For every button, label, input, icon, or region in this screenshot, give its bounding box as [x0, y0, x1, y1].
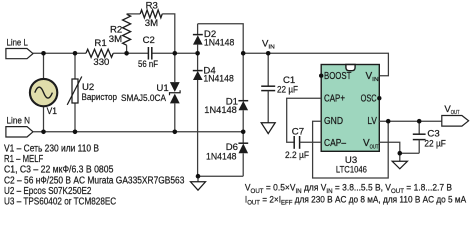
svg-text:Line L: Line L [7, 38, 29, 49]
wire D2 top loop to VIN node [198, 24, 244, 54]
wire C2 to node B end [152, 52, 197, 54]
svg-text:OSC: OSC [361, 93, 377, 104]
VOUT tag [442, 104, 469, 126]
diode D4 [193, 65, 234, 176]
wire main top rail [33, 52, 86, 54]
wire VOUT pin to ground node [379, 142, 419, 153]
wire GND loop [313, 121, 389, 178]
Line L connector [6, 38, 33, 59]
resistor R2 [109, 14, 131, 53]
svg-text:C2: C2 [143, 35, 155, 46]
junction node B R3/U1 [173, 51, 178, 56]
svg-text:BOOST: BOOST [324, 71, 351, 82]
junction U1 bottom [173, 130, 178, 135]
wire VIN rail to IC [243, 53, 388, 75]
junction D2/D4 [195, 51, 200, 56]
TVS diode U1 [121, 53, 180, 132]
op IC U3 LTC1046 [319, 65, 381, 176]
V1 AC source [30, 53, 57, 132]
wire LV to VOUT tag [379, 120, 442, 122]
svg-text:R1: R1 [94, 38, 106, 49]
diode D2 [193, 24, 234, 71]
svg-text:U2: U2 [82, 82, 94, 93]
junction V1 bottom [41, 130, 46, 135]
svg-text:LTC1046: LTC1046 [336, 164, 367, 175]
svg-text:C7: C7 [292, 126, 304, 137]
ground (C3) [392, 153, 407, 169]
svg-text:1N4148: 1N4148 [204, 105, 237, 116]
svg-text:GND: GND [324, 116, 343, 127]
junction V1 top [41, 51, 46, 56]
resistor R3 [127, 0, 175, 53]
capacitor C7 [285, 98, 321, 161]
svg-text:2.2 µF: 2.2 µF [285, 150, 309, 161]
junction C1 tap [266, 51, 271, 56]
resistor R1 [86, 38, 113, 68]
ground (C1) [261, 123, 275, 134]
svg-text:V1: V1 [47, 106, 57, 117]
wire D6 bottom to ground node [198, 175, 243, 177]
svg-text:U3 – TPS60402 or TCM828EC: U3 – TPS60402 or TCM828EC [4, 197, 116, 208]
svg-text:C1, C3 – 22 мкФ/6.3 В 0805: C1, C3 – 22 мкФ/6.3 В 0805 [4, 165, 113, 176]
svg-text:U2 – Epcos S07K250E2: U2 – Epcos S07K250E2 [4, 186, 91, 197]
junction VIN node [241, 51, 246, 56]
svg-text:IOUT = 2×IEFF для 230 В AC до: IOUT = 2×IEFF для 230 В AC до 8 мА, для … [245, 194, 466, 207]
svg-text:LV: LV [367, 116, 377, 127]
junction U2 top [73, 51, 78, 56]
svg-text:56 nF: 56 nF [138, 59, 158, 70]
svg-text:330: 330 [93, 57, 109, 68]
svg-text:VIN: VIN [262, 38, 275, 50]
notes text block [4, 144, 184, 208]
svg-text:3M: 3M [145, 18, 158, 29]
svg-text:VOUT: VOUT [444, 104, 459, 116]
junction diode ground node [196, 174, 201, 179]
junction R2 bottom [124, 51, 129, 56]
svg-text:C2 – 56 нФ/250 В AC Murata GA3: C2 – 56 нФ/250 В AC Murata GA335XR7GB563 [4, 175, 184, 186]
Line N connector [6, 116, 33, 137]
svg-text:CAP–: CAP– [324, 138, 346, 149]
svg-text:1N4148: 1N4148 [204, 38, 234, 49]
capacitor C1 [261, 53, 298, 122]
U2 varistor [67, 53, 117, 132]
svg-text:3M: 3M [109, 34, 122, 45]
svg-text:22 µF: 22 µF [424, 139, 446, 150]
svg-text:Line N: Line N [7, 116, 31, 127]
svg-text:R1 – MELF: R1 – MELF [4, 154, 43, 165]
svg-text:1N4148: 1N4148 [206, 151, 237, 162]
capacitor C2 [138, 35, 158, 70]
diode D1 [204, 53, 248, 143]
capacitor C3 [413, 121, 446, 153]
formula line 1 [245, 182, 452, 195]
ground (diode chain) [191, 176, 206, 190]
svg-text:1N4148: 1N4148 [203, 74, 233, 85]
svg-text:V1 – Сеть 230 или 110 В: V1 – Сеть 230 или 110 В [4, 144, 99, 155]
formula line 2 [245, 194, 466, 207]
junction C3 top [417, 119, 422, 124]
wire R1 to C2 [113, 52, 148, 54]
svg-text:Варистор: Варистор [82, 92, 118, 103]
svg-text:CAP+: CAP+ [324, 93, 345, 104]
wire Line N rail [33, 131, 243, 133]
junction C3 bottom ground [398, 151, 403, 156]
svg-text:SMAJ5.0CA: SMAJ5.0CA [121, 93, 167, 104]
diode D6 [206, 142, 248, 176]
junction LV/GND loop [386, 119, 391, 124]
svg-text:22 µF: 22 µF [277, 84, 298, 95]
svg-text:R3: R3 [146, 0, 158, 11]
junction D1/D6 [241, 130, 246, 135]
junction U2 bottom [73, 130, 78, 135]
